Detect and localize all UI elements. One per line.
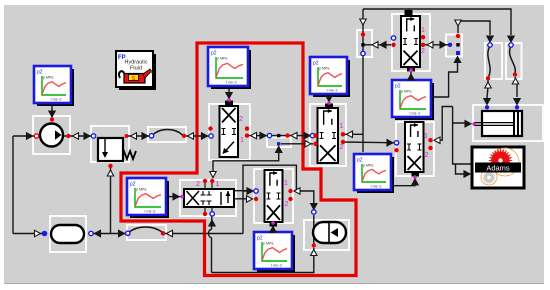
valve V5 bottom port dot <box>413 175 417 179</box>
accumulator bottom port dot <box>312 243 316 247</box>
wire V3 right ports to V6 left ports <box>234 191 252 199</box>
valve V5 left port1 open dot <box>394 141 398 145</box>
valve V4 top port dot <box>327 101 331 105</box>
svg-text:1: 1 <box>340 123 344 130</box>
wire scope S4 top to valve V6 <box>272 226 274 231</box>
wire tank riser x243 and bypass loop <box>243 165 296 233</box>
hose H1 left dot <box>149 134 153 138</box>
valve V2 bottom cap <box>407 67 415 72</box>
scope S2 <box>208 47 251 89</box>
svg-text:p2: p2 <box>313 61 319 67</box>
valve V4 left open dot <box>310 133 314 137</box>
wire scope S2 to valve V1 <box>228 87 230 100</box>
hose H3 bottom dot <box>486 76 490 80</box>
selection box hose H1 <box>148 127 186 142</box>
wire scope S4 bottom drain <box>272 270 274 273</box>
hose H3 bottom open arrow <box>485 82 491 88</box>
valve V1 right port2 dot <box>245 133 249 137</box>
tank right port open dot <box>89 231 93 235</box>
wire junction N1 to valve V4 y143.8 <box>281 143 313 145</box>
valve V5 bottom cap <box>412 172 420 177</box>
valve V4 left port1 dot <box>313 133 317 137</box>
valve V1 left port1 dot <box>208 126 212 130</box>
wire relief valve drain <box>110 166 112 234</box>
open arrow east of V2 <box>427 42 433 48</box>
junction N1 lower node dot <box>277 142 280 145</box>
open arrow into valve V4 port2 <box>305 141 311 147</box>
selection box valve V2 <box>392 14 430 71</box>
red dot east of junction <box>285 133 289 137</box>
arrow into junction N2 <box>440 42 446 48</box>
valve V4 top cap <box>325 104 333 109</box>
pump P1 <box>40 124 63 147</box>
junction N2 red dot <box>456 34 460 38</box>
wire hose H4 bottom to cylinder <box>515 77 517 97</box>
junction open dot <box>267 133 271 137</box>
valve V2 bottom port dot <box>409 68 413 72</box>
valve V3 top port2 dot <box>203 179 207 183</box>
hose H4 vertical <box>510 46 516 74</box>
valve V2 to scope S5 arrow <box>408 74 414 80</box>
wire scope S5 to junction N2 <box>431 63 458 97</box>
valve V5 <box>405 122 424 172</box>
valve V3 top port1 dot <box>210 179 214 183</box>
valve V1 right port1 dot <box>245 126 249 130</box>
valve V6 <box>265 170 283 222</box>
hose H3 top open dot <box>488 43 492 47</box>
wire junction N1 riser to valve V3 port1 <box>213 146 279 178</box>
tank inlet open arrow <box>35 230 41 236</box>
wire V3 bottom riser with crossing hop <box>211 238 213 273</box>
scope S8 <box>310 57 350 97</box>
valve V3 left port dot <box>180 195 184 199</box>
svg-text:t ms−2: t ms−2 <box>51 98 62 102</box>
svg-text:p MPa: p MPa <box>363 164 373 168</box>
svg-text:S: S <box>132 76 136 82</box>
wire scope S6 top feed <box>362 147 364 152</box>
valve V1 left port2 open dot <box>209 134 213 138</box>
hose H1 right dot <box>182 134 186 138</box>
tank T1 <box>51 225 84 243</box>
scope S3 <box>127 178 169 218</box>
column x363 node dot <box>361 43 364 46</box>
wire left riser x13 <box>12 136 14 234</box>
valve V3 pilot open arrow <box>210 172 216 178</box>
open arrow east of V5 <box>434 137 440 143</box>
pump outlet open arrow <box>73 133 79 139</box>
wire scope S1 to pump <box>51 103 53 117</box>
svg-text:2: 2 <box>285 201 289 208</box>
hose H4 top open dot <box>509 43 513 47</box>
pump left port open dot <box>34 134 38 138</box>
wire cylinder rod to Adams <box>453 107 472 175</box>
valve V5 left port2 dot <box>394 148 398 152</box>
column x363 blue open dot <box>361 51 365 55</box>
hose H2 right open arrow <box>167 230 173 236</box>
wire hose H1 arc <box>152 130 183 136</box>
open arrow east of V6 port1 <box>294 188 300 194</box>
pump top port dot <box>50 117 54 121</box>
valve V3 bottom port2 dot <box>203 212 207 216</box>
open arrow east of V4 port1 <box>347 131 353 137</box>
valve V4 left port2 dot <box>313 142 317 146</box>
svg-text:p2: p2 <box>211 51 217 57</box>
pump top port arrow <box>49 111 55 117</box>
arrow into hose H2 <box>119 230 125 236</box>
selection box junction column x363 <box>357 30 372 57</box>
valve V1 top port dot <box>227 98 231 102</box>
svg-text:1: 1 <box>240 137 244 144</box>
svg-text:p2: p2 <box>37 70 43 76</box>
valve V6 right port2 dot <box>288 197 292 201</box>
valve V3 bottom port1 open dot <box>210 212 214 216</box>
arrow into relief valve <box>84 133 90 139</box>
valve V4 <box>318 108 339 163</box>
wire scope S8 to valve V4 <box>328 95 330 102</box>
valve V5 right port2 dot <box>428 146 432 150</box>
arrow into accumulator top <box>311 204 317 210</box>
selection box junction node N2 <box>446 35 462 57</box>
valve V3 bottom riser arrow <box>209 220 215 226</box>
selection box tank T1 <box>50 216 86 252</box>
svg-text:p2: p2 <box>395 84 401 90</box>
svg-text:p MPa: p MPa <box>401 90 411 94</box>
arrow into valve V5 left <box>387 140 393 146</box>
valve V6 to scope S4 arrow <box>270 227 276 233</box>
FP hydraulic fluid block <box>116 51 156 90</box>
wire scope S3 to valve V3 <box>166 196 181 198</box>
pump right port dot <box>66 134 70 138</box>
svg-text:p MPa: p MPa <box>263 242 273 246</box>
svg-text:p2: p2 <box>357 158 363 164</box>
svg-text:p MPa: p MPa <box>217 57 227 61</box>
valve V2 top cap <box>405 10 413 16</box>
svg-text:1: 1 <box>284 180 288 187</box>
svg-text:2: 2 <box>421 48 425 55</box>
wire valve V2 right to junction N2 <box>424 44 448 46</box>
selection box cylinder <box>473 105 543 141</box>
junction N2 left dot <box>448 43 452 47</box>
accumulator top open dot <box>312 210 316 214</box>
column x363 junction open arrow <box>360 19 366 25</box>
selection box hose H4 <box>506 43 522 79</box>
svg-text:1: 1 <box>424 133 428 140</box>
valve V2 right port1 dot <box>421 35 425 39</box>
svg-text:1: 1 <box>216 181 220 188</box>
svg-text:p MPa: p MPa <box>43 76 53 80</box>
svg-text:Fluid: Fluid <box>130 66 142 72</box>
wire valve V2 bottom to scope S5 <box>410 71 412 78</box>
wire hose H2 arc <box>128 227 163 233</box>
arrow west toward column x363 <box>372 42 378 48</box>
valve V3 bottom stubs <box>205 207 212 213</box>
junction N2 blue square <box>456 51 460 55</box>
junction N2 node dot <box>456 43 459 46</box>
relief valve outlet open arrow <box>131 133 137 139</box>
cylinder top port2 dot <box>515 105 519 109</box>
valve V1 top arrow <box>226 93 232 99</box>
open arrow into valve V6 port2 <box>247 196 253 202</box>
wire V6 left port1 feed <box>243 190 252 192</box>
selection box relief valve <box>91 126 129 162</box>
svg-text:p2: p2 <box>130 182 136 188</box>
valve V4 right port1 dot <box>341 132 345 136</box>
wire valve V5 bottom stub <box>414 175 416 177</box>
red highlight outline polygon <box>121 43 356 276</box>
hose H4 bottom open arrow <box>512 78 518 84</box>
cylinder top port1 dot <box>485 105 489 109</box>
relief valve RV1 <box>98 138 136 161</box>
valve V5 right port1 dot <box>428 138 432 142</box>
selection box valve V4 <box>310 104 346 166</box>
pump left inlet arrow <box>27 133 33 139</box>
valve V3 top stubs <box>205 182 212 189</box>
svg-text:p MPa: p MPa <box>136 188 146 192</box>
valve V6 bottom port dot <box>271 221 275 225</box>
arrow on wire to valve V2 <box>380 42 386 48</box>
valve V2 right port2 dot <box>421 43 425 47</box>
wire column x363 to valve V2 left <box>363 44 391 46</box>
relief valve left port dot <box>91 134 95 138</box>
svg-text:t ms−2: t ms−2 <box>145 210 156 214</box>
junction N1 riser arrow <box>276 147 282 153</box>
wire main pressure line y136 from left riser to valve V1 <box>13 135 211 137</box>
relief valve bottom port dot <box>108 164 112 168</box>
valve V1 top cap <box>225 101 233 107</box>
valve V2 <box>401 16 420 67</box>
cylinder CY1 <box>474 111 522 136</box>
accumulator AC1 <box>313 222 346 243</box>
cylinder rod port dot <box>472 122 476 126</box>
hose H3 vertical <box>488 46 490 78</box>
wire tank return line y233 <box>13 233 243 235</box>
tank left port dot <box>42 231 48 237</box>
hose H3 top arrow <box>487 36 493 42</box>
valve V6 left port1 open dot <box>254 189 258 193</box>
hose H4 top arrow <box>508 36 514 42</box>
hose H2 left dot <box>126 231 130 235</box>
wire valve V1 to junction line y135.6 <box>247 135 313 137</box>
wire valve V2 top stub <box>408 9 410 11</box>
svg-text:t ms−2: t ms−2 <box>271 264 282 268</box>
selection box pump <box>33 116 70 154</box>
selection box valve V3 <box>180 180 236 216</box>
valve V6 bottom cap <box>270 222 278 227</box>
svg-text:t ms−2: t ms−2 <box>327 89 338 93</box>
valve V6 left port2 dot <box>254 197 258 201</box>
svg-text:Adams: Adams <box>486 164 510 173</box>
valve V6 right port1 dot <box>288 189 292 193</box>
svg-text:t ms−2: t ms−2 <box>226 81 237 85</box>
scope S6 <box>354 154 394 193</box>
Adams block <box>472 147 524 188</box>
accumulator drain open arrow <box>311 250 317 256</box>
svg-text:p MPa: p MPa <box>319 67 329 71</box>
wire scope S6 right to valve V5 bottom <box>392 184 415 186</box>
wire column x363 junction riser <box>362 9 364 147</box>
valve V3 <box>184 189 234 207</box>
open arrow east of V1 <box>251 132 257 138</box>
arrow into cylinder rod <box>465 121 471 127</box>
arrow into valve V4 port1 <box>304 132 310 138</box>
selection box valve V5 <box>396 122 434 176</box>
svg-text:2: 2 <box>239 116 243 123</box>
selection box hose H2 <box>127 225 166 240</box>
hose H4 to cylinder arrow <box>514 99 520 105</box>
arrow on wire to junction <box>260 132 266 138</box>
valve V4 right port2 dot <box>341 140 345 144</box>
selection box valve V6 <box>254 169 293 223</box>
valve V2 left port1 open dot <box>391 36 395 40</box>
junction N2 open arrow top <box>455 20 461 26</box>
open arrow east of junction <box>291 132 297 138</box>
hose H3 to cylinder arrow <box>484 99 490 105</box>
relief valve right port dot <box>125 134 129 138</box>
column x363 red dot <box>361 32 365 36</box>
valve V4 top arrow <box>326 96 332 102</box>
junction N1 node dot <box>277 134 280 137</box>
wire junction N2 riser and top line to hose H3 <box>458 21 490 35</box>
arrow into Adams <box>464 171 470 177</box>
scope S5 <box>392 80 434 120</box>
wire top line to hose H4 <box>363 9 511 35</box>
svg-text:t ms−2: t ms−2 <box>410 112 421 116</box>
arrow into hose H1 <box>142 133 148 139</box>
selection box hose H3 <box>485 43 502 79</box>
wire valve V4 right port1 to column x363 <box>343 133 363 135</box>
selection box accumulator <box>304 220 349 250</box>
selection box valve V1 <box>209 104 250 160</box>
svg-text:2: 2 <box>196 181 200 188</box>
tank return arrow <box>95 230 101 236</box>
arrow into valve V1 left <box>202 133 208 139</box>
valve V1 <box>220 106 239 157</box>
wire V6 right port1 to drain column <box>294 191 314 209</box>
selection box junction node N1 <box>267 138 291 148</box>
svg-text:2: 2 <box>340 144 344 151</box>
hose H1 right open arrow <box>188 133 194 139</box>
valve V5 bottom arrow <box>412 179 418 185</box>
svg-text:t ms−2: t ms−2 <box>371 185 382 189</box>
relief valve drain open arrow <box>107 170 113 176</box>
svg-text:2: 2 <box>425 152 429 159</box>
arrow into valve V6 port1 <box>247 188 253 194</box>
hose H2 right dot <box>161 231 165 235</box>
wire hose H3 bottom to cylinder <box>487 80 488 98</box>
wire accumulator drain column x313.8 <box>212 215 314 273</box>
scope S4 <box>254 232 295 272</box>
svg-text:1: 1 <box>421 27 425 34</box>
wire valve V4 right port2 to valve V5 <box>343 141 396 144</box>
junction N2 riser arrow <box>454 57 460 63</box>
valve V2 left port2 dot <box>391 43 395 47</box>
svg-text:p2: p2 <box>257 236 263 242</box>
arrow into valve V3 left <box>173 193 179 199</box>
wire valve V5 right port1 riser to cylinder rod line <box>434 107 453 141</box>
scope S1 <box>34 66 74 106</box>
hose H4 bottom dot <box>513 72 517 76</box>
